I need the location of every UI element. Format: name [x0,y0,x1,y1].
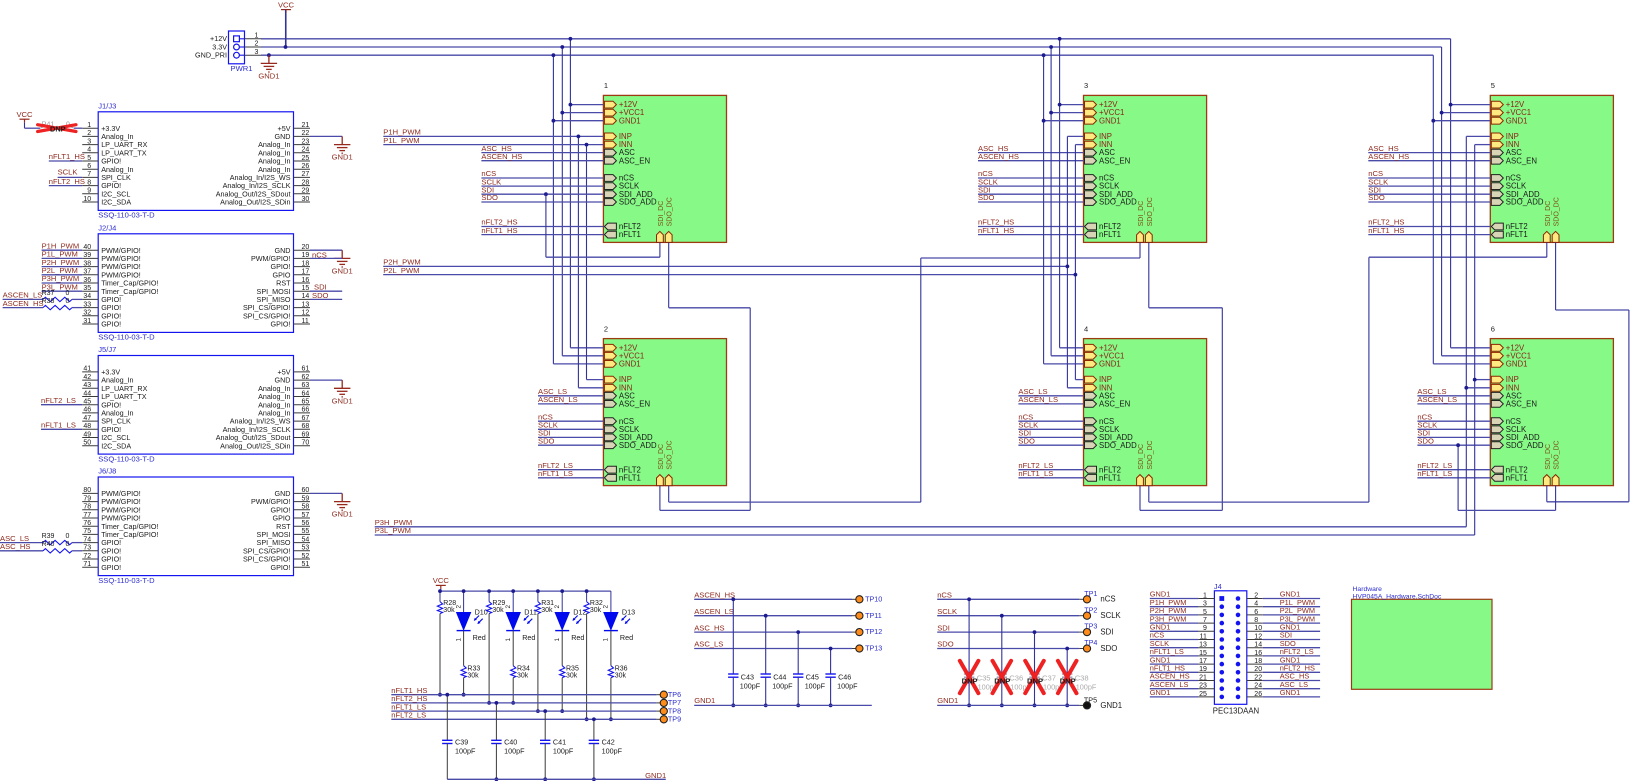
svg-text:Red: Red [571,633,584,642]
svg-text:SDO: SDO [1417,436,1434,445]
svg-text:C40: C40 [504,737,517,746]
svg-text:nFLT2_HS: nFLT2_HS [49,177,85,186]
svg-text:SCLK: SCLK [58,168,78,177]
svg-text:27: 27 [302,171,310,178]
svg-text:71: 71 [83,561,91,568]
svg-text:C38: C38 [1075,673,1089,682]
svg-text:SDO_ADD: SDO_ADD [619,198,657,207]
svg-text:2: 2 [505,605,512,609]
svg-text:D10: D10 [475,608,488,617]
svg-text:6: 6 [1491,324,1495,333]
svg-text:19: 19 [302,252,310,259]
svg-text:GPIO!: GPIO! [271,320,291,329]
svg-text:SDO_DC: SDO_DC [1147,440,1154,469]
svg-text:52: 52 [302,553,310,560]
svg-text:28: 28 [302,179,310,186]
svg-text:nFLT1: nFLT1 [1099,473,1121,482]
svg-text:D11: D11 [524,608,537,617]
svg-text:37: 37 [83,269,91,276]
svg-text:D13: D13 [622,608,635,617]
svg-text:SDO: SDO [538,436,555,445]
svg-text:3: 3 [87,138,91,145]
svg-text:nFLT1: nFLT1 [619,473,641,482]
svg-text:nFLT1_HS: nFLT1_HS [978,226,1014,235]
svg-text:DNP: DNP [50,125,66,134]
svg-text:24: 24 [1254,683,1262,690]
svg-text:nFLT1: nFLT1 [1506,473,1528,482]
svg-text:30k: 30k [566,673,578,680]
svg-text:ASCEN_HS: ASCEN_HS [694,591,735,600]
svg-text:13: 13 [302,301,310,308]
svg-text:I2C_SDA: I2C_SDA [101,198,131,207]
svg-text:2: 2 [603,605,610,609]
svg-text:79: 79 [83,495,91,502]
svg-text:38: 38 [83,260,91,267]
svg-text:DNP: DNP [994,676,1010,685]
svg-text:7: 7 [1203,617,1207,624]
svg-text:100pF: 100pF [805,681,826,690]
svg-text:GPIO!: GPIO! [101,563,121,572]
svg-text:16: 16 [1254,650,1262,657]
svg-text:GND1: GND1 [1280,688,1301,697]
svg-text:11: 11 [302,318,309,325]
svg-text:70: 70 [302,440,310,447]
svg-text:8: 8 [87,179,91,186]
svg-text:TP3: TP3 [1084,622,1097,631]
svg-text:nFLT2_LS: nFLT2_LS [41,396,76,405]
svg-text:ASC_HS: ASC_HS [0,542,30,551]
svg-text:nCS: nCS [1100,595,1115,604]
svg-text:VCC: VCC [433,576,450,585]
svg-text:R40: R40 [42,541,55,548]
svg-text:15: 15 [302,285,310,292]
svg-text:SDI_DC: SDI_DC [1545,201,1552,227]
svg-text:GND1: GND1 [1099,360,1121,369]
svg-text:C37: C37 [1042,673,1056,682]
svg-text:ASCEN_HS: ASCEN_HS [1368,152,1409,161]
svg-text:GND1: GND1 [1099,116,1121,125]
svg-text:GND1: GND1 [619,116,641,125]
svg-text:R29: R29 [492,600,505,607]
svg-text:SSQ-110-03-T-D: SSQ-110-03-T-D [98,454,155,463]
svg-text:ASC_EN: ASC_EN [1506,400,1537,409]
svg-text:GND1: GND1 [1506,116,1528,125]
svg-text:TP5: TP5 [1084,695,1097,704]
svg-text:C36: C36 [1009,673,1023,682]
svg-text:31: 31 [83,318,91,325]
svg-text:HVP045A_Hardware.SchDoc: HVP045A_Hardware.SchDoc [1353,593,1442,600]
svg-text:I2C_SDA: I2C_SDA [101,441,131,450]
svg-text:60: 60 [302,487,310,494]
svg-text:14: 14 [1254,642,1262,649]
svg-text:19: 19 [1199,666,1207,673]
svg-text:ASC_EN: ASC_EN [1099,156,1130,165]
svg-text:Red: Red [620,633,633,642]
svg-text:100pF: 100pF [772,681,793,690]
svg-text:TP12: TP12 [865,627,882,636]
svg-text:R35: R35 [566,666,579,673]
svg-text:SCLK: SCLK [937,607,957,616]
svg-text:GND1: GND1 [332,153,353,162]
svg-text:25: 25 [1199,691,1207,698]
svg-text:R31: R31 [541,600,554,607]
svg-text:56: 56 [302,520,310,527]
svg-text:SSQ-110-03-T-D: SSQ-110-03-T-D [98,333,155,342]
svg-text:18: 18 [302,260,310,267]
svg-text:23: 23 [302,138,310,145]
svg-text:C39: C39 [455,737,468,746]
svg-text:9: 9 [87,188,91,195]
svg-text:55: 55 [302,528,310,535]
svg-text:R38: R38 [42,298,55,305]
svg-text:1: 1 [554,638,561,642]
svg-text:2: 2 [554,605,561,609]
svg-text:D12: D12 [573,608,586,617]
svg-text:41: 41 [83,366,91,373]
svg-text:65: 65 [302,399,310,406]
svg-text:100pF: 100pF [740,681,761,690]
svg-text:SDO: SDO [937,640,954,649]
svg-text:VCC: VCC [278,0,295,9]
svg-text:nFLT1_HS: nFLT1_HS [481,226,517,235]
svg-text:SDO: SDO [1018,436,1035,445]
svg-text:4: 4 [1254,601,1258,608]
svg-text:ASCEN_HS: ASCEN_HS [3,299,44,308]
svg-text:29: 29 [302,188,310,195]
svg-text:TP13: TP13 [865,644,882,653]
svg-text:3: 3 [1084,81,1088,90]
svg-text:SDI: SDI [937,623,950,632]
svg-text:TP4: TP4 [1084,638,1097,647]
svg-text:Analog_Out/I2S_SDin: Analog_Out/I2S_SDin [220,198,290,207]
svg-text:30k: 30k [467,673,479,680]
svg-text:20: 20 [302,244,310,251]
svg-text:GND1: GND1 [937,696,958,705]
svg-text:46: 46 [83,407,91,414]
svg-text:ASCEN_HS: ASCEN_HS [978,152,1019,161]
svg-text:64: 64 [302,390,310,397]
svg-text:15: 15 [1199,650,1207,657]
svg-text:nFLT1: nFLT1 [1506,230,1528,239]
svg-text:0: 0 [66,298,70,305]
svg-text:30k: 30k [590,607,602,614]
svg-text:SDI_DC: SDI_DC [1138,444,1145,470]
svg-text:ASC_HS: ASC_HS [694,623,724,632]
svg-text:33: 33 [83,301,91,308]
svg-text:76: 76 [83,520,91,527]
svg-text:Red: Red [473,633,486,642]
svg-text:ASCEN_HS: ASCEN_HS [481,152,522,161]
svg-text:26: 26 [302,163,310,170]
svg-text:nFLT1_LS: nFLT1_LS [41,421,76,430]
svg-text:SDO: SDO [1368,193,1385,202]
svg-text:TP11: TP11 [865,611,882,620]
svg-text:57: 57 [302,512,310,519]
svg-text:C45: C45 [806,672,819,681]
svg-text:J1/J3: J1/J3 [98,102,116,111]
svg-text:GPIO!: GPIO! [101,320,121,329]
svg-text:R36: R36 [615,666,628,673]
svg-text:35: 35 [83,285,91,292]
svg-text:67: 67 [302,415,310,422]
svg-text:43: 43 [83,382,91,389]
svg-text:nFLT2_LS: nFLT2_LS [391,711,426,720]
svg-text:1: 1 [455,638,462,642]
svg-text:1: 1 [604,81,608,90]
svg-text:20: 20 [1254,666,1262,673]
svg-text:1: 1 [87,122,91,129]
svg-text:72: 72 [83,553,91,560]
svg-text:C42: C42 [602,737,615,746]
svg-text:C46: C46 [838,672,851,681]
svg-text:GND1: GND1 [619,360,641,369]
svg-text:100pF: 100pF [504,746,525,755]
svg-text:30k: 30k [517,673,529,680]
svg-text:C41: C41 [553,737,566,746]
svg-text:2: 2 [87,130,91,137]
svg-text:nCS: nCS [312,250,327,259]
svg-text:SDO: SDO [1100,644,1117,653]
svg-text:1: 1 [505,638,512,642]
svg-text:80: 80 [83,487,91,494]
svg-text:SDO_DC: SDO_DC [1147,197,1154,226]
svg-text:6: 6 [87,163,91,170]
svg-text:62: 62 [302,374,310,381]
svg-text:SDI_DC: SDI_DC [658,201,665,227]
svg-text:TP10: TP10 [865,594,882,603]
svg-text:32: 32 [83,310,91,317]
svg-text:54: 54 [302,536,310,543]
svg-text:74: 74 [83,536,91,543]
svg-text:100pF: 100pF [837,681,858,690]
svg-text:4: 4 [1084,324,1088,333]
svg-text:P3L_PWM: P3L_PWM [375,526,411,535]
svg-text:C44: C44 [773,672,786,681]
svg-text:17: 17 [302,269,310,276]
svg-text:DNP: DNP [962,676,978,685]
svg-text:ASC_LS: ASC_LS [694,640,723,649]
svg-text:nCS: nCS [937,591,952,600]
svg-text:DNP: DNP [1027,676,1043,685]
svg-text:Analog_Out/I2S_SDin: Analog_Out/I2S_SDin [220,441,290,450]
svg-text:R34: R34 [517,666,530,673]
svg-text:68: 68 [302,423,310,430]
svg-text:SDO_DC: SDO_DC [667,440,674,469]
svg-text:Hardware: Hardware [1353,586,1383,593]
svg-text:59: 59 [302,495,310,502]
svg-text:25: 25 [302,155,310,162]
svg-text:P1L_PWM: P1L_PWM [383,136,419,145]
svg-text:42: 42 [83,374,91,381]
svg-text:R37: R37 [42,290,55,297]
svg-text:21: 21 [302,122,310,129]
svg-text:GND1: GND1 [694,696,715,705]
svg-text:PEC13DAAN: PEC13DAAN [1213,707,1259,716]
svg-text:53: 53 [302,545,310,552]
svg-text:TP9: TP9 [668,715,681,724]
svg-text:78: 78 [83,504,91,511]
svg-text:ASC_EN: ASC_EN [1506,156,1537,165]
svg-text:J2/J4: J2/J4 [98,224,116,233]
svg-text:nFLT1: nFLT1 [619,230,641,239]
svg-text:nFLT1: nFLT1 [1099,230,1121,239]
svg-text:ASCEN_LS: ASCEN_LS [694,607,734,616]
svg-text:SDO_DC: SDO_DC [667,197,674,226]
svg-text:30k: 30k [541,607,553,614]
svg-text:R28: R28 [443,600,456,607]
svg-text:GND1: GND1 [1506,360,1528,369]
svg-text:C35: C35 [977,673,991,682]
svg-text:GND1: GND1 [332,267,353,276]
svg-text:10: 10 [1254,625,1262,632]
svg-text:SDI_DC: SDI_DC [658,444,665,470]
svg-text:10: 10 [83,196,91,203]
svg-text:C43: C43 [741,672,754,681]
svg-text:22: 22 [302,130,310,137]
svg-text:nFLT1_LS: nFLT1_LS [538,469,573,478]
svg-text:SDI: SDI [1100,628,1113,637]
svg-text:2: 2 [455,605,462,609]
svg-text:1: 1 [255,33,259,40]
svg-text:SDO_DC: SDO_DC [1554,440,1561,469]
svg-text:SSQ-110-03-T-D: SSQ-110-03-T-D [98,576,155,585]
svg-text:2: 2 [604,324,608,333]
svg-text:2: 2 [255,41,259,48]
svg-text:GND1: GND1 [332,396,353,405]
svg-text:PWR1: PWR1 [231,64,253,73]
svg-text:34: 34 [83,293,91,300]
svg-text:24: 24 [302,147,310,154]
svg-text:100pF: 100pF [553,746,574,755]
svg-text:30k: 30k [492,607,504,614]
svg-text:12: 12 [302,310,310,317]
svg-text:4: 4 [87,147,91,154]
svg-text:45: 45 [83,399,91,406]
svg-text:36: 36 [83,277,91,284]
svg-text:18: 18 [1254,658,1262,665]
svg-text:47: 47 [83,415,91,422]
svg-text:58: 58 [302,504,310,511]
svg-text:SDO: SDO [312,291,329,300]
svg-text:77: 77 [83,512,91,519]
svg-text:0: 0 [66,533,70,540]
svg-text:0: 0 [66,541,70,548]
svg-text:SDO_DC: SDO_DC [1554,197,1561,226]
svg-text:50: 50 [83,440,91,447]
svg-text:30: 30 [302,196,310,203]
svg-text:12: 12 [1254,633,1262,640]
svg-text:44: 44 [83,390,91,397]
svg-text:69: 69 [302,431,310,438]
svg-text:11: 11 [1200,633,1207,640]
svg-text:nFLT1_LS: nFLT1_LS [1417,469,1452,478]
svg-text:63: 63 [302,382,310,389]
svg-text:9: 9 [1203,625,1207,632]
svg-text:73: 73 [83,545,91,552]
svg-text:J5/J7: J5/J7 [98,345,116,354]
svg-text:21: 21 [1199,674,1207,681]
svg-text:100pF: 100pF [602,746,623,755]
svg-text:23: 23 [1199,683,1207,690]
svg-text:61: 61 [302,366,310,373]
svg-text:R32: R32 [590,600,603,607]
svg-text:ASCEN_LS: ASCEN_LS [1417,395,1457,404]
svg-text:GPIO!: GPIO! [271,563,291,572]
svg-text:100pF: 100pF [1076,682,1097,691]
svg-text:SCLK: SCLK [1100,611,1121,620]
svg-text:5: 5 [87,155,91,162]
svg-text:SDO: SDO [481,193,498,202]
svg-text:J4: J4 [1214,582,1222,591]
svg-text:SSQ-110-03-T-D: SSQ-110-03-T-D [98,211,155,220]
svg-text:14: 14 [302,293,310,300]
svg-text:SDO: SDO [978,193,995,202]
svg-text:ASC_EN: ASC_EN [619,400,650,409]
svg-text:SDO_ADD: SDO_ADD [1506,198,1544,207]
svg-text:26: 26 [1254,691,1262,698]
svg-text:R39: R39 [42,533,55,540]
svg-text:30k: 30k [443,607,455,614]
svg-text:DNP: DNP [1060,676,1076,685]
svg-text:VCC: VCC [16,110,33,119]
svg-text:3: 3 [1203,601,1207,608]
svg-text:ASCEN_LS: ASCEN_LS [1018,395,1058,404]
svg-text:ASC_EN: ASC_EN [1099,400,1130,409]
svg-text:100pF: 100pF [455,746,476,755]
svg-text:1: 1 [603,638,610,642]
svg-text:16: 16 [302,277,310,284]
svg-text:17: 17 [1199,658,1207,665]
svg-text:6: 6 [1254,609,1258,616]
svg-text:nFLT1_HS: nFLT1_HS [1368,226,1404,235]
svg-text:GND1: GND1 [645,771,666,780]
svg-text:SDO_ADD: SDO_ADD [1099,198,1137,207]
svg-text:GND1: GND1 [1150,688,1171,697]
svg-text:51: 51 [302,561,310,568]
svg-text:40: 40 [83,244,91,251]
svg-text:P2L_PWM: P2L_PWM [383,266,419,275]
svg-text:0: 0 [66,290,70,297]
svg-text:8: 8 [1254,617,1258,624]
svg-text:49: 49 [83,431,91,438]
svg-text:nFLT1_HS: nFLT1_HS [49,152,85,161]
svg-text:J6/J8: J6/J8 [98,467,116,476]
svg-text:SDO_ADD: SDO_ADD [619,441,657,450]
svg-text:nFLT1_LS: nFLT1_LS [1018,469,1053,478]
svg-text:30k: 30k [615,673,627,680]
svg-text:5: 5 [1491,81,1495,90]
svg-text:Red: Red [522,633,535,642]
svg-text:1: 1 [1203,592,1207,599]
svg-text:GND1: GND1 [332,510,353,519]
svg-text:5: 5 [1203,609,1207,616]
svg-text:SDO_ADD: SDO_ADD [1506,441,1544,450]
svg-text:ASC_EN: ASC_EN [619,156,650,165]
svg-text:66: 66 [302,407,310,414]
svg-text:SDI_DC: SDI_DC [1545,444,1552,470]
svg-text:R33: R33 [467,666,480,673]
svg-text:GND_PRI: GND_PRI [195,51,227,60]
svg-text:SDI_DC: SDI_DC [1138,201,1145,227]
svg-text:TP1: TP1 [1084,589,1097,598]
svg-text:TP2: TP2 [1084,605,1097,614]
svg-text:48: 48 [83,423,91,430]
svg-text:2: 2 [1254,592,1258,599]
svg-text:7: 7 [87,171,91,178]
svg-text:39: 39 [83,252,91,259]
svg-text:22: 22 [1254,674,1262,681]
svg-text:GND1: GND1 [258,72,279,81]
